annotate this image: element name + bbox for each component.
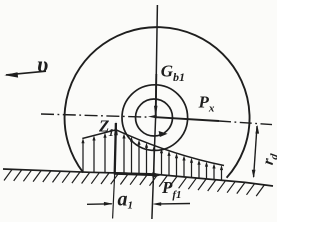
force G_b1 arrow (vertical load) bbox=[155, 74, 158, 117]
pressure distribution envelope bbox=[82, 130, 224, 166]
force Z_1 reaction arrow bbox=[115, 123, 116, 173]
vertical centre axis line bbox=[152, 5, 158, 219]
wheel rotation direction arrow bbox=[159, 131, 168, 137]
force P_f1 rolling-resistance arrow bbox=[114, 173, 154, 174]
wheel tire circle bbox=[65, 27, 250, 178]
hub outer circle bbox=[122, 85, 188, 151]
dimension a_1 line with arrows bbox=[87, 203, 112, 206]
horizontal axis dash-dot line bbox=[41, 114, 148, 117]
velocity arrow v bbox=[6, 71, 46, 75]
ground line bbox=[3, 169, 273, 186]
hub inner circle bbox=[136, 99, 173, 136]
ground hatching bbox=[4, 170, 264, 197]
pressure distribution arrows bbox=[83, 137, 222, 180]
force P_x arrow (horizontal) bbox=[156, 117, 219, 121]
svg-text:υ: υ bbox=[37, 52, 48, 77]
dimension r_d line with arrows bbox=[254, 126, 257, 177]
